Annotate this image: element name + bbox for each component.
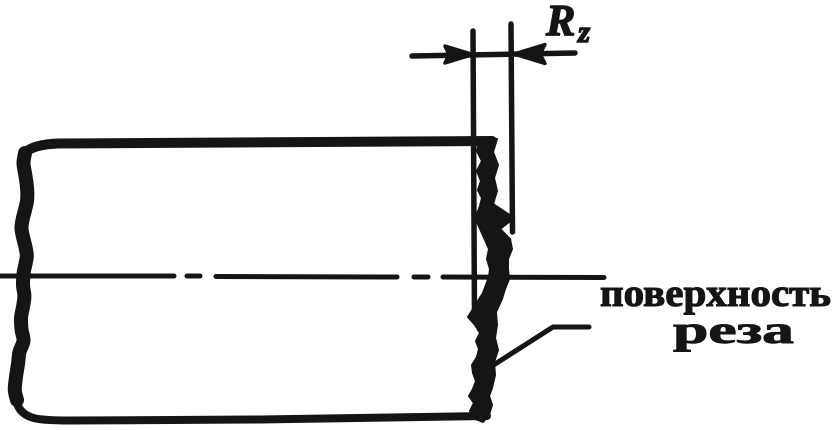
arrowhead right (points left at extension line) <box>514 45 545 64</box>
wire: workpiece bottom edge <box>16 399 487 421</box>
centerline dash 2 <box>216 274 397 280</box>
svg-text:реза: реза <box>673 309 794 352</box>
centerline dot 1 <box>187 274 200 279</box>
centerline dash 1 <box>0 274 174 279</box>
centerline dash 3 <box>443 275 604 281</box>
svg-text:R: R <box>545 0 575 45</box>
extension line left (Rz measurement) <box>473 31 475 318</box>
extension line right (Rz measurement) <box>511 24 513 232</box>
centerline dot 2 <box>414 275 428 280</box>
dimension line Rz <box>412 53 575 56</box>
wire: wavy break line (left edge of workpiece) <box>15 153 28 400</box>
svg-text:z: z <box>577 14 590 49</box>
leader line to поверхность реза <box>492 327 589 366</box>
arrowhead left (points right at extension line) <box>445 46 473 63</box>
wire: workpiece top edge <box>26 141 492 152</box>
rough cut edge (поверхность реза, jagged right side of workpiece) <box>468 137 514 422</box>
